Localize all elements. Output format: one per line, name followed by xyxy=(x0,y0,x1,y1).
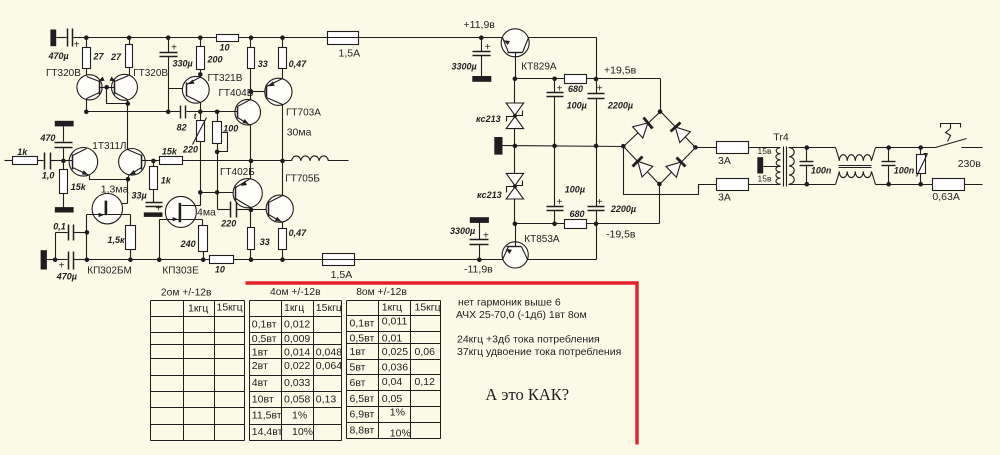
capacitor 100n (right) xyxy=(882,148,896,185)
svg-text:470: 470 xyxy=(39,133,55,143)
-19,5в rail wire xyxy=(515,185,660,224)
wire: thermistor to ГТ402Б base line xyxy=(200,142,202,193)
svg-text:10вт: 10вт xyxy=(252,394,274,406)
label 100n (right) xyxy=(894,165,915,175)
label КП303Е xyxy=(162,266,199,277)
wire: ГТ320В right collector to base junction xyxy=(107,88,131,106)
svg-text:240: 240 xyxy=(180,239,196,249)
label +11,9в xyxy=(464,19,496,31)
label 33 (bottom) xyxy=(260,237,270,247)
resistor 10 (bottom series) xyxy=(210,256,234,275)
mid rail wire xyxy=(87,111,237,113)
svg-text:1,5к: 1,5к xyxy=(108,235,126,245)
node: bridge bottom corner xyxy=(657,182,662,187)
svg-text:1,5А: 1,5А xyxy=(339,48,361,60)
svg-text:0,13: 0,13 xyxy=(316,394,337,406)
svg-text:-11,9в: -11,9в xyxy=(464,264,493,276)
svg-text:100µ: 100µ xyxy=(567,100,587,110)
svg-text:1кгц: 1кгц xyxy=(382,302,402,314)
svg-text:11,5вт: 11,5вт xyxy=(252,410,282,422)
svg-text:0,47: 0,47 xyxy=(289,228,308,238)
svg-text:10%: 10% xyxy=(292,426,313,438)
wire: 100 bottom down across output line xyxy=(217,152,219,193)
table header 2ом +/-12в xyxy=(161,288,212,299)
node dots at 100n (right) xyxy=(886,145,891,186)
capacitor 82 (series in mid rail) xyxy=(181,106,186,119)
node: input junction xyxy=(61,159,66,164)
table 8ом grid xyxy=(347,301,441,439)
wire: ГТ705Б base line xyxy=(251,209,269,211)
svg-text:КП302БМ: КП302БМ xyxy=(87,266,132,277)
note: нет гармоник выше 6 xyxy=(458,297,561,309)
ground bar (above 470 cap) xyxy=(55,121,74,127)
svg-text:5вт: 5вт xyxy=(350,362,366,374)
label 3300µ (top) xyxy=(452,61,477,71)
capacitor 2200µ (top) xyxy=(588,79,605,146)
label ГТ703А xyxy=(286,108,321,119)
base drive line to ГТ402Б xyxy=(198,190,236,195)
transistor ГТ703А xyxy=(265,78,292,105)
svg-text:нет гармоник выше 6: нет гармоник выше 6 xyxy=(458,297,561,309)
transistor 1Т311Л (left half) xyxy=(64,148,98,177)
svg-text:0,036: 0,036 xyxy=(382,362,408,374)
wire: transformer secondary bottom to filter xyxy=(789,184,836,186)
node dots on output line xyxy=(249,159,285,164)
svg-text:КТ853А: КТ853А xyxy=(524,234,560,245)
transistor ГТ320В (left) xyxy=(77,75,107,100)
wire: КП302БМ gate down to rail xyxy=(85,215,90,260)
label ГТ321В xyxy=(208,73,243,84)
svg-text:33: 33 xyxy=(258,59,268,69)
label 2200µ (top) xyxy=(607,100,633,110)
svg-text:1%: 1% xyxy=(292,410,307,422)
label ГТ320В (left) xyxy=(46,68,81,79)
label 15k (vertical) xyxy=(71,182,87,192)
transformer Tr4 xyxy=(764,147,795,187)
svg-text:3300µ: 3300µ xyxy=(452,61,477,71)
varistor xyxy=(917,148,928,185)
label ГТ320В (right) xyxy=(133,68,168,79)
svg-text:15k: 15k xyxy=(162,146,178,156)
capacitor 330µ xyxy=(160,38,178,112)
node: ГТ321В collector xyxy=(198,72,203,77)
label Tr4 xyxy=(773,131,789,143)
svg-text:10: 10 xyxy=(215,265,225,275)
label 470µ (bottom) xyxy=(56,271,77,281)
svg-text:0,058: 0,058 xyxy=(284,394,310,406)
svg-text:0,05: 0,05 xyxy=(382,393,403,405)
node: 680 left / 100µ top xyxy=(552,77,557,82)
node dots on top rail xyxy=(84,35,484,40)
transformer centre-tap bar xyxy=(757,157,763,173)
transistor ГТ320В (right) xyxy=(107,74,138,100)
label 82 xyxy=(177,122,187,132)
svg-text:+: + xyxy=(74,40,80,51)
label 4ма xyxy=(197,206,216,218)
capacitor 33µ xyxy=(146,203,163,215)
svg-text:2вт: 2вт xyxy=(252,360,268,372)
svg-text:82: 82 xyxy=(177,122,187,132)
svg-text:3А: 3А xyxy=(718,192,731,204)
label 1Т311Л xyxy=(92,141,126,152)
diode (bridge upper-left) xyxy=(624,112,661,147)
svg-text:0,1: 0,1 xyxy=(53,222,66,232)
svg-text:6вт: 6вт xyxy=(350,377,366,389)
resistor 680 (bottom) xyxy=(565,209,587,229)
fuse 1,5А (top rail) xyxy=(328,32,361,60)
svg-text:ГТ703А: ГТ703А xyxy=(286,108,321,119)
table header 8ом +/-12в xyxy=(356,287,407,298)
svg-text:кс213: кс213 xyxy=(477,190,502,200)
transistor КТ853А xyxy=(480,224,529,269)
diode (bridge upper-right) xyxy=(661,112,696,148)
resistor 0,47 (top) xyxy=(279,38,308,79)
note: 24кгц +3дб тока потребления xyxy=(457,334,600,346)
label 470 xyxy=(39,133,55,143)
svg-text:33: 33 xyxy=(260,237,270,247)
label 10 (top series resistor) xyxy=(220,43,230,53)
label ГТ402Б xyxy=(220,167,255,178)
resistor 680 (top) xyxy=(565,75,597,95)
node dots on bottom rail xyxy=(53,257,285,262)
node: right base / feedback xyxy=(151,159,156,164)
node: bridge left corner xyxy=(621,144,626,149)
svg-text:ГТ404Б: ГТ404Б xyxy=(219,88,254,99)
svg-text:0,1вт: 0,1вт xyxy=(252,319,277,331)
table 8ом cell text xyxy=(350,302,441,440)
svg-text:15k: 15k xyxy=(71,182,87,192)
node dots at varistor xyxy=(918,145,923,186)
svg-text:14,4вт: 14,4вт xyxy=(252,426,283,438)
svg-text:220: 220 xyxy=(220,219,236,229)
label 220 (capacitor) xyxy=(220,219,236,229)
resistor 27 (right) xyxy=(110,38,133,76)
svg-text:1кгц: 1кгц xyxy=(284,302,304,314)
resistor 10 (top rail series) xyxy=(217,35,239,42)
label -11,9в xyxy=(464,264,493,276)
node: ГТ404Б collector / ГТ703А base xyxy=(249,90,267,95)
svg-text:ГТ402Б: ГТ402Б xyxy=(220,167,255,178)
svg-text:0,5вт: 0,5вт xyxy=(252,333,277,345)
label 2200µ (bottom) xyxy=(610,204,636,214)
label 30ма xyxy=(287,126,312,138)
label КП302БМ xyxy=(87,266,132,277)
svg-text:8ом +/-12в: 8ом +/-12в xyxy=(356,287,407,298)
svg-text:0,022: 0,022 xyxy=(284,360,310,372)
ground bar (under 3300µ top) xyxy=(472,76,491,82)
svg-text:4ма: 4ма xyxy=(197,206,216,218)
svg-text:0,025: 0,025 xyxy=(382,346,408,358)
resistor 240 xyxy=(199,226,208,260)
label 470µ xyxy=(48,51,69,61)
transistor КТ829А xyxy=(501,29,529,79)
svg-text:Tr4: Tr4 xyxy=(773,131,789,143)
svg-text:0,1вт: 0,1вт xyxy=(350,318,375,330)
table 2ом grid xyxy=(151,301,245,441)
svg-text:ГТ321В: ГТ321В xyxy=(208,73,243,84)
wire: 1Т311Л joined emitters xyxy=(90,176,131,182)
transistor ГТ402Б xyxy=(233,179,262,208)
svg-text:15кгц: 15кгц xyxy=(316,302,342,314)
svg-text:2200µ: 2200µ xyxy=(610,204,636,214)
svg-text:10%: 10% xyxy=(390,428,411,440)
label 0,1 xyxy=(53,222,66,232)
red marker line xyxy=(246,283,638,445)
svg-text:0,01: 0,01 xyxy=(382,332,403,344)
resistor 33 (bottom) xyxy=(248,210,255,260)
wire: bridge left corner AC jog to lower 3А fuse xyxy=(624,147,781,195)
bottom rail wire (-11,9в rail) xyxy=(87,259,480,261)
wire: ГТ321В emitter to mid rail xyxy=(200,103,202,112)
capacitor 470 (input filter) xyxy=(55,127,73,161)
svg-text:27: 27 xyxy=(93,52,105,62)
svg-text:0,014: 0,014 xyxy=(284,346,310,358)
label КТ829А xyxy=(521,61,557,72)
resistor 1k (input) xyxy=(13,147,38,165)
svg-text:1k: 1k xyxy=(17,147,28,157)
svg-text:1,0: 1,0 xyxy=(42,171,55,181)
svg-text:230в: 230в xyxy=(958,158,982,170)
svg-text:1вт: 1вт xyxy=(252,346,268,358)
resistor 1k (vertical) xyxy=(150,161,158,203)
wire +19,5 to bridge top xyxy=(597,79,661,112)
svg-text:470µ: 470µ xyxy=(48,51,69,61)
node: КТ829А emitter xyxy=(513,77,518,82)
svg-text:0,011: 0,011 xyxy=(382,316,408,328)
svg-text:1кгц: 1кгц xyxy=(188,303,208,315)
svg-text:КТ829А: КТ829А xyxy=(521,61,557,72)
transistor 1Т311Л (right half) xyxy=(119,149,154,176)
table 4ом grid xyxy=(250,301,342,441)
zener кс213 (upper, bidirectional) xyxy=(506,79,523,146)
table header 4ом +/-12в xyxy=(270,287,321,298)
wire: ГТ705Б collector to output line xyxy=(282,161,284,196)
wire: ГТ703А emitter to output line xyxy=(282,105,284,161)
capacitor 1,0 (input coupling) xyxy=(38,153,64,170)
label 100 xyxy=(223,123,238,133)
label 230в xyxy=(958,158,982,170)
wire: ГТ402Б emitter to output line xyxy=(250,161,252,179)
fuse 3А (upper) xyxy=(717,142,749,168)
note: А это КАК? xyxy=(485,385,569,404)
wire: КТ853А collector to -19,5 node xyxy=(528,224,597,260)
svg-text:8,8вт: 8,8вт xyxy=(350,425,375,437)
capacitor 2200µ (bottom) xyxy=(588,146,605,224)
svg-text:0,064: 0,064 xyxy=(316,360,342,372)
svg-text:15в: 15в xyxy=(758,174,772,184)
transistor ГТ705Б xyxy=(266,195,293,222)
wires to varistor xyxy=(889,148,936,185)
svg-text:37кгц удвоение тока потреблени: 37кгц удвоение тока потребления xyxy=(457,346,621,358)
svg-text:t: t xyxy=(194,112,197,121)
svg-text:100n: 100n xyxy=(811,165,832,175)
svg-text:330µ: 330µ xyxy=(173,58,193,68)
capacitor 100µ (bottom) xyxy=(547,146,564,224)
svg-text:+: + xyxy=(171,43,177,54)
svg-text:0,033: 0,033 xyxy=(284,377,310,389)
capacitor 3300µ (positive rail) xyxy=(473,38,491,77)
svg-text:200: 200 xyxy=(207,54,223,64)
capacitor 100µ (top) xyxy=(547,79,564,146)
ground bar (under 15k) xyxy=(55,207,74,212)
svg-text:4вт: 4вт xyxy=(252,377,268,389)
svg-text:100n: 100n xyxy=(894,165,915,175)
svg-text:+11,9в: +11,9в xyxy=(464,19,496,31)
speaker/output terminal bar (top-left) xyxy=(50,30,56,47)
resistor 200 xyxy=(197,38,223,78)
label 1,0 xyxy=(42,171,55,181)
label 15в (lower) xyxy=(758,174,772,184)
label кс213 (upper) xyxy=(476,114,501,124)
capacitor 100n (left) xyxy=(800,148,814,185)
svg-text:А это КАК?: А это КАК? xyxy=(485,385,569,404)
svg-text:680: 680 xyxy=(568,84,583,94)
common-mode choke xyxy=(836,148,889,185)
node: joined bases of ГТ320В pair xyxy=(104,85,109,90)
node dots at 100n (left) xyxy=(805,145,810,186)
svg-text:3А: 3А xyxy=(718,155,731,167)
svg-text:100µ: 100µ xyxy=(565,184,585,194)
wire: ГТ320В right collector down to 1Т311Л xyxy=(127,104,129,150)
diode (bridge lower-left) xyxy=(624,147,660,185)
capacitor 0,1 xyxy=(56,225,87,260)
label 1,5к xyxy=(108,235,126,245)
svg-text:470µ: 470µ xyxy=(56,271,77,281)
transistor ГТ321В xyxy=(182,76,209,103)
transistor КП302БМ (FET) xyxy=(87,194,131,226)
resistor 15k (vertical) xyxy=(60,161,68,208)
transistor КП303Е (FET) xyxy=(160,193,203,228)
node: bridge top corner xyxy=(658,109,663,114)
node dots on mid rail xyxy=(166,110,220,115)
resistor 27 (left) xyxy=(83,38,105,76)
label КТ853А xyxy=(524,234,560,245)
svg-text:15в: 15в xyxy=(758,146,772,156)
svg-text:2200µ: 2200µ xyxy=(607,100,633,110)
svg-text:10: 10 xyxy=(220,43,230,53)
wire: bridge right corner to 3А fuse xyxy=(696,147,781,149)
label 1k (vertical) xyxy=(161,175,172,185)
wire: КП303Е gate down to rail xyxy=(159,220,161,260)
resistor 33 (top) xyxy=(248,38,268,100)
capacitor 470µ (bottom electrolytic) xyxy=(47,252,87,272)
mains switch xyxy=(936,124,983,148)
wire: 1Т311Л emitters to КП302БМ drain xyxy=(108,180,128,204)
svg-text:ГТ705Б: ГТ705Б xyxy=(285,174,320,185)
svg-text:КП303Е: КП303Е xyxy=(162,266,199,277)
ground bar (0V, mid) xyxy=(494,137,502,155)
svg-text:15кгц: 15кгц xyxy=(217,302,243,314)
svg-text:0,5вт: 0,5вт xyxy=(350,332,375,344)
svg-text:ГТ320В: ГТ320В xyxy=(46,68,81,79)
label 330µ xyxy=(173,58,193,68)
capacitor 220 xyxy=(218,193,251,218)
svg-text:1Т311Л: 1Т311Л xyxy=(92,141,126,152)
fuse 3А (lower) xyxy=(717,179,749,204)
svg-text:-19,5в: -19,5в xyxy=(606,228,636,240)
table 4ом cell text xyxy=(252,302,342,438)
svg-text:6,5вт: 6,5вт xyxy=(350,393,375,405)
wire: transformer secondary top to filter xyxy=(789,147,836,149)
zener кс213 (lower, bidirectional) xyxy=(506,146,523,224)
transistor ГТ404Б xyxy=(217,99,261,125)
table 2ом column headers xyxy=(188,302,243,315)
capacitor 3300µ (negative rail) xyxy=(470,223,490,263)
svg-text:0,048: 0,048 xyxy=(316,346,342,358)
svg-text:1вт: 1вт xyxy=(350,346,366,358)
svg-text:24кгц +3дб тока потребления: 24кгц +3дб тока потребления xyxy=(457,334,600,346)
svg-text:3300µ: 3300µ xyxy=(450,226,475,236)
svg-text:кс213: кс213 xyxy=(476,114,501,124)
label 3300µ (bottom) xyxy=(450,226,475,236)
svg-text:15кгц: 15кгц xyxy=(415,302,441,314)
resistor 15k (feedback) xyxy=(160,146,183,164)
fuse 1,5А (bottom rail) xyxy=(323,254,355,282)
label 240 xyxy=(180,239,196,249)
label 0,47 (bottom) xyxy=(289,228,308,238)
note: 37кгц удвоение тока потребления xyxy=(457,346,621,358)
node dots on 0V wire xyxy=(513,144,599,149)
svg-text:6,9вт: 6,9вт xyxy=(350,409,375,421)
label 220 (thermistor) xyxy=(182,144,198,154)
input wire xyxy=(5,160,13,162)
svg-text:2ом +/-12в: 2ом +/-12в xyxy=(161,288,212,299)
svg-text:1,5А: 1,5А xyxy=(331,269,353,281)
svg-text:680: 680 xyxy=(570,209,585,219)
output/feedback line xyxy=(154,160,349,162)
label -19,5в xyxy=(606,228,636,240)
capacitor 470µ (top-left electrolytic) xyxy=(57,29,87,51)
wire: ГТ320В left collector down to mid rail xyxy=(84,99,89,115)
svg-text:0,12: 0,12 xyxy=(415,376,436,388)
resistor 1,5к xyxy=(126,226,136,260)
wire: 330µ tap to ГТ321В base xyxy=(169,88,187,90)
label 1,3ма xyxy=(101,184,129,196)
label 100µ (bottom) xyxy=(565,184,585,194)
label 100µ (top) xyxy=(567,100,587,110)
svg-text:33µ: 33µ xyxy=(132,190,147,200)
diode (bridge lower-right) xyxy=(660,148,696,185)
node: bridge right corner xyxy=(693,145,698,150)
svg-text:+: + xyxy=(59,261,65,272)
note: АЧХ 25-70,0 (-1дб) 1вт 8ом xyxy=(456,309,587,321)
resistor 0,47 (bottom) xyxy=(279,223,287,260)
svg-text:0,47: 0,47 xyxy=(289,59,308,69)
output inductor xyxy=(292,156,329,161)
resistor 100 (trimmer) xyxy=(213,112,228,155)
top supply rail wire (+11,9в rail) xyxy=(87,37,503,39)
svg-text:1k: 1k xyxy=(161,175,172,185)
label кс213 (lower) xyxy=(477,190,502,200)
wire: ГТ404Б emitter to output line xyxy=(250,126,252,161)
svg-text:30ма: 30ма xyxy=(287,126,312,138)
0V mid wire xyxy=(503,146,624,147)
label 33µ xyxy=(132,190,147,200)
svg-text:4ом +/-12в: 4ом +/-12в xyxy=(270,287,321,298)
svg-text:АЧХ 25-70,0 (-1дб) 1вт 8ом: АЧХ 25-70,0 (-1дб) 1вт 8ом xyxy=(456,309,587,321)
svg-text:0,06: 0,06 xyxy=(415,346,436,358)
svg-text:0,012: 0,012 xyxy=(284,319,310,331)
wire: ГТ402Б collector node xyxy=(249,208,254,213)
label ГТ404Б xyxy=(219,88,254,99)
svg-text:100: 100 xyxy=(223,123,238,133)
ground bar (under 33µ) xyxy=(144,212,163,217)
ground bar (above 3300µ bottom) xyxy=(470,217,489,223)
svg-text:27: 27 xyxy=(110,52,122,62)
thermistor 220 xyxy=(193,112,207,145)
node dots on -19,5в rail xyxy=(513,222,599,227)
svg-text:0,04: 0,04 xyxy=(382,376,403,388)
